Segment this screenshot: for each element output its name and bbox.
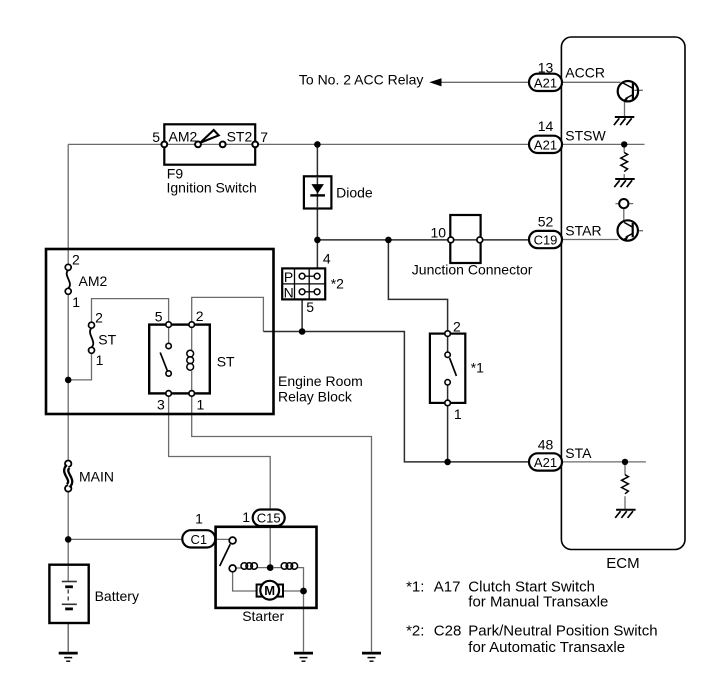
svg-text:4: 4 xyxy=(323,251,331,267)
svg-text:STAR: STAR xyxy=(565,222,601,238)
svg-text:C1: C1 xyxy=(190,532,207,547)
svg-text:Engine Room: Engine Room xyxy=(278,373,363,389)
svg-text:13: 13 xyxy=(538,59,554,75)
svg-text:N: N xyxy=(284,285,294,301)
svg-text:STA: STA xyxy=(565,445,592,461)
svg-text:Battery: Battery xyxy=(95,588,139,604)
svg-text:Starter: Starter xyxy=(242,608,284,624)
svg-text:A17: A17 xyxy=(434,579,461,596)
svg-text:2: 2 xyxy=(95,310,103,326)
svg-text:2: 2 xyxy=(196,308,204,324)
svg-text:14: 14 xyxy=(538,118,554,134)
svg-text:5: 5 xyxy=(306,299,314,315)
svg-text:MAIN: MAIN xyxy=(79,469,114,485)
svg-text:52: 52 xyxy=(538,213,554,229)
svg-text:Relay Block: Relay Block xyxy=(278,389,353,405)
svg-text:1: 1 xyxy=(96,352,104,368)
svg-text:AM2: AM2 xyxy=(79,273,108,289)
svg-text:for Automatic Transaxle: for Automatic Transaxle xyxy=(468,639,625,656)
svg-text:2: 2 xyxy=(453,319,461,335)
svg-text:ST2: ST2 xyxy=(227,128,253,144)
svg-text:for Manual Transaxle: for Manual Transaxle xyxy=(468,594,608,611)
svg-text:A21: A21 xyxy=(534,455,557,470)
svg-text:*1: *1 xyxy=(471,360,484,376)
svg-text:48: 48 xyxy=(538,436,554,452)
svg-text:*2:: *2: xyxy=(406,623,424,640)
svg-text:2: 2 xyxy=(72,251,80,267)
svg-text:Junction Connector: Junction Connector xyxy=(412,261,533,277)
svg-text:5: 5 xyxy=(152,129,160,145)
svg-text:1: 1 xyxy=(72,294,80,310)
svg-text:Diode: Diode xyxy=(336,185,373,201)
svg-text:ECM: ECM xyxy=(606,555,639,572)
svg-text:3: 3 xyxy=(157,397,165,413)
svg-text:P: P xyxy=(284,269,293,285)
svg-text:Park/Neutral Position Switch: Park/Neutral Position Switch xyxy=(468,623,657,640)
svg-text:1: 1 xyxy=(195,511,203,527)
svg-text:Ignition Switch: Ignition Switch xyxy=(167,180,257,196)
svg-text:ST: ST xyxy=(217,354,235,370)
svg-text:A21: A21 xyxy=(534,75,557,90)
svg-text:1: 1 xyxy=(454,406,462,422)
svg-text:C28: C28 xyxy=(434,623,462,640)
svg-text:C15: C15 xyxy=(257,510,281,525)
svg-text:5: 5 xyxy=(155,309,163,325)
svg-text:*2: *2 xyxy=(331,275,344,291)
svg-text:M: M xyxy=(264,583,275,598)
svg-text:7: 7 xyxy=(260,129,268,145)
svg-text:C19: C19 xyxy=(534,233,558,248)
svg-text:AM2: AM2 xyxy=(169,128,198,144)
svg-text:10: 10 xyxy=(431,225,447,241)
svg-text:A21: A21 xyxy=(534,137,557,152)
svg-text:ST: ST xyxy=(98,332,116,348)
svg-text:*1:: *1: xyxy=(406,579,424,596)
svg-text:To No. 2 ACC Relay: To No. 2 ACC Relay xyxy=(299,72,424,88)
svg-text:STSW: STSW xyxy=(565,127,606,143)
svg-text:ACCR: ACCR xyxy=(565,65,605,81)
svg-text:1: 1 xyxy=(197,397,205,413)
svg-text:1: 1 xyxy=(242,509,250,525)
